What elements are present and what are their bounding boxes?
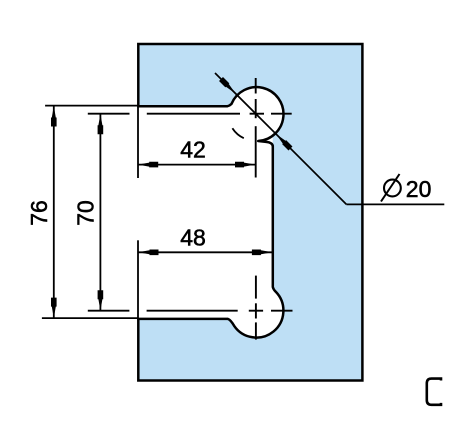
dimension 70 line xyxy=(98,114,104,311)
extension line top (y=106) xyxy=(45,105,138,107)
diameter symbol xyxy=(381,174,401,202)
dimension 48 line xyxy=(138,250,272,256)
dimension 76 line xyxy=(51,106,57,318)
centerline top hole horizontal xyxy=(147,113,292,115)
svg-text:20: 20 xyxy=(406,176,432,202)
view label C xyxy=(427,379,441,405)
part body (blue plate) xyxy=(138,44,362,381)
hole H1 partial thin arc (hidden part of top hole in notch) xyxy=(232,128,243,138)
centerline top hole vertical xyxy=(255,78,257,178)
extension line bottom (y=319) xyxy=(42,317,138,319)
notch and hole-bulge outline xyxy=(137,87,283,337)
centerline bottom hole horizontal xyxy=(147,310,293,312)
diameter value 20 xyxy=(406,176,432,202)
centerline bottom hole vertical xyxy=(255,276,257,340)
extension line 70 bottom xyxy=(88,310,130,312)
dimension 76 text xyxy=(26,200,52,226)
svg-text:76: 76 xyxy=(26,200,52,226)
dimension 42 line xyxy=(138,162,256,168)
dimension 70 text xyxy=(73,200,99,226)
svg-text:48: 48 xyxy=(180,225,206,251)
dimension 42 text xyxy=(180,137,206,163)
extension line notch left upper (42) xyxy=(137,106,139,178)
extension line 70 top xyxy=(88,113,130,115)
dimension 48 text xyxy=(180,225,206,251)
leader line for diameter xyxy=(215,73,444,204)
hole H1 white fill xyxy=(230,87,284,141)
svg-text:42: 42 xyxy=(180,137,206,163)
notch cutout (white) xyxy=(135,106,273,319)
hole H2 white fill xyxy=(230,284,284,338)
extension line notch left lower (48) xyxy=(137,240,139,319)
svg-text:70: 70 xyxy=(73,200,99,226)
